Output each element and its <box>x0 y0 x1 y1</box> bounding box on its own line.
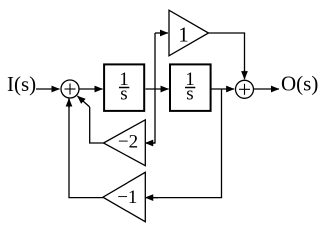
svg-text:1: 1 <box>178 22 189 46</box>
svg-text:I(s): I(s) <box>7 72 36 96</box>
svg-text:s: s <box>120 84 127 105</box>
svg-text:s: s <box>186 84 193 105</box>
svg-text:−1: −1 <box>117 187 137 208</box>
svg-text:−2: −2 <box>118 131 138 152</box>
svg-text:O(s): O(s) <box>281 72 318 96</box>
